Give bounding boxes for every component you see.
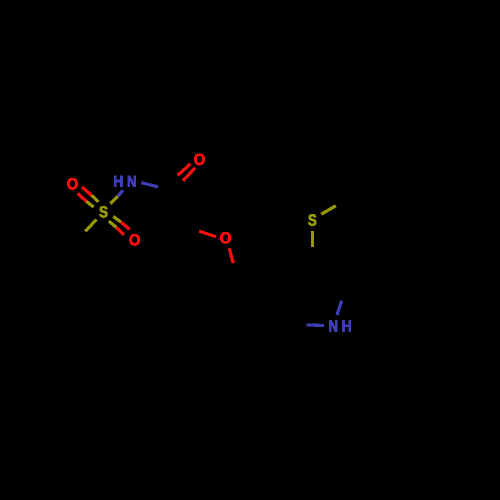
- bond S2-CH2 (olive half): [321, 206, 336, 214]
- bond C-O ether (red half): [199, 231, 216, 237]
- sulfonyl S=O (bottom-right) double bond: [109, 216, 130, 234]
- sulfonyl S=O (top-left) double bond: [78, 187, 99, 207]
- bond S-CH3 (olive half): [85, 220, 96, 232]
- line 2 olive half: [86, 201, 93, 207]
- bond ringN-C left (blue half): [307, 323, 325, 327]
- bond O-C ring (red half): [229, 248, 233, 263]
- atom S thioether: [308, 214, 316, 225]
- atom label HN - N: [128, 176, 136, 187]
- line 2 red half: [78, 193, 87, 201]
- atom O sulfonyl bottom: [130, 234, 140, 245]
- bond ringN-C2 up (blue half): [337, 301, 342, 315]
- atom label NH ring - N: [329, 321, 337, 332]
- bond N-C(=O) (blue half): [141, 183, 158, 187]
- bond S2-C ring (olive half): [311, 231, 314, 247]
- carbonyl C=O double bond (red halves): [178, 164, 195, 181]
- atom O carbonyl: [194, 154, 204, 165]
- atom O ether: [220, 232, 230, 243]
- line 1 olive half: [92, 195, 99, 201]
- bond S-N: [111, 191, 124, 204]
- atom label NH ring - H: [343, 321, 351, 332]
- atom O sulfonyl top-left: [67, 178, 77, 189]
- atom label HN - H: [114, 176, 122, 187]
- atom S sulfonyl: [99, 206, 107, 217]
- line 1 red half: [82, 187, 92, 195]
